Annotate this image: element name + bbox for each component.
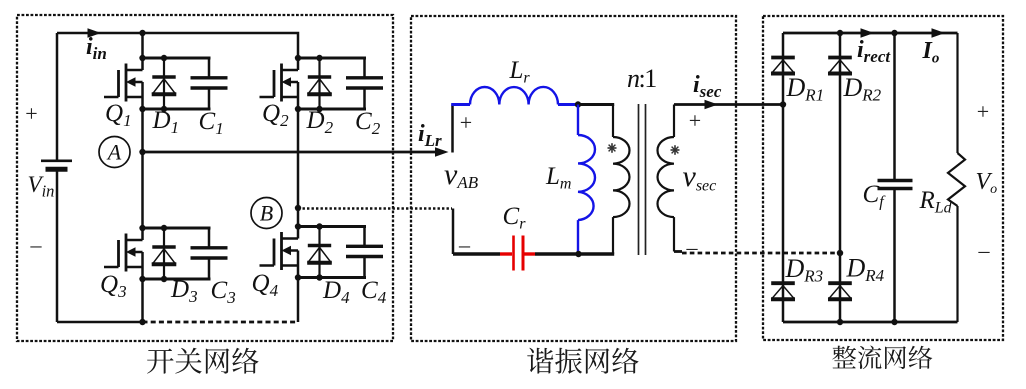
inductor L_m (magnetizing) — [578, 105, 595, 255]
wire leg2 middle through node B — [297, 109, 300, 227]
wire v_AB positive terminal vertical — [451, 105, 454, 153]
wire secondary top to rectifier — [674, 103, 783, 106]
svg-text:+: + — [689, 108, 701, 133]
diode DR1 — [771, 58, 795, 74]
wire leg2 bottom Q4 to return — [297, 278, 300, 323]
diode DR2 — [828, 58, 852, 74]
junction dots of Q2 cell — [295, 55, 323, 112]
section label rectifier network 整流网络 — [832, 345, 932, 369]
dashed box: rectifier network region — [763, 16, 1003, 340]
arrow of current i_rect — [861, 28, 875, 38]
dashed box: switch network region — [17, 15, 393, 341]
wire node B to resonant tank (dotted) — [298, 207, 452, 210]
wire bottom return dashed segment Q3 to Q4 — [143, 321, 299, 324]
transformer primary polarity asterisk — [608, 143, 617, 153]
junction dots of Q4 cell — [295, 223, 323, 280]
transistor Q3 (N-MOSFET) — [104, 228, 143, 279]
wire rectifier top rail — [783, 32, 958, 35]
junction dot L_m bottom — [575, 251, 581, 257]
capacitor C_r (resonant, red) — [500, 236, 535, 271]
transformer core lines — [639, 104, 646, 255]
wire rectifier bottom rail — [783, 321, 958, 324]
wire tank bottom right segment to primary — [535, 252, 614, 255]
node B circle annotation — [251, 198, 282, 229]
node A circle annotation — [99, 137, 130, 168]
resistor R_Ld (load) — [948, 33, 965, 322]
junction dots top rail — [837, 30, 898, 36]
svg-text:A: A — [106, 140, 122, 165]
arrow of current i_Lr — [435, 147, 449, 157]
wire source-node bottom bar of Q1 cell — [141, 108, 211, 111]
arrow of current i_sec — [705, 100, 719, 110]
arrow of current i_in — [88, 28, 102, 38]
svg-text:–: – — [30, 232, 43, 257]
capacitor C_f (output filter) — [878, 33, 913, 322]
wire bottom return solid segment — [57, 321, 143, 324]
wire top rail from battery to Q2 leg — [57, 33, 298, 58]
junction dots of Q1 cell — [139, 55, 167, 112]
wire drain-node top bar of Q2 cell — [297, 57, 367, 60]
diode D4 (anti-parallel) — [307, 227, 332, 278]
wire left rail upper (battery positive) — [56, 33, 59, 160]
wire bridge left leg (D_R1/D_R3) — [782, 33, 785, 322]
wire node to transformer primary top — [578, 103, 614, 106]
wire v_AB negative vertical from node B line — [452, 209, 455, 255]
wire secondary bottom stub — [674, 250, 682, 253]
transistor Q4 (N-MOSFET) — [260, 227, 299, 278]
transformer primary winding — [613, 105, 630, 255]
node B junction dot — [295, 205, 301, 211]
arrow of current I_o — [932, 28, 946, 38]
capacitor C2 (snubber) — [346, 58, 383, 109]
wire drain-node top bar of Q4 cell — [297, 225, 367, 228]
wire node A to resonant tank — [143, 151, 436, 154]
svg-text:–: – — [686, 235, 699, 260]
wire source-node bottom bar of Q4 cell — [297, 276, 367, 279]
wire drain-node top bar of Q3 cell — [141, 227, 211, 230]
transformer secondary winding — [658, 105, 674, 252]
svg-text:+: + — [977, 99, 989, 124]
junction dot L_m top — [575, 101, 581, 107]
diode D3 (anti-parallel) — [152, 228, 177, 279]
svg-text:+: + — [25, 101, 37, 126]
wire source-node bottom bar of Q2 cell — [297, 108, 367, 111]
svg-text:B: B — [260, 201, 273, 226]
svg-text:+: + — [460, 110, 472, 135]
wire blue lead into L_r — [451, 103, 470, 106]
diode DR4 — [828, 283, 852, 299]
junction dots of Q3 cell — [139, 225, 167, 282]
capacitor C4 (snubber) — [346, 227, 383, 278]
capacitor C1 (snubber) — [191, 58, 228, 109]
wire leg1 bottom Q3 to return — [141, 279, 144, 322]
wire bridge right leg (D_R2/D_R4) — [839, 33, 842, 322]
inductor L_r — [470, 87, 558, 105]
dashed box: resonant network region — [411, 16, 736, 341]
wire leg1 middle through node A — [141, 109, 144, 228]
wire left rail lower (battery negative) — [56, 172, 59, 323]
wire drain-node top bar of Q1 cell — [141, 57, 211, 60]
junction dot secondary top input — [780, 101, 786, 107]
transistor Q2 (N-MOSFET) — [260, 58, 299, 109]
transformer secondary polarity asterisk — [671, 145, 680, 155]
wire blue lead from L_r to node — [558, 103, 578, 106]
section label resonant network 谐振网络 — [527, 348, 638, 374]
wire tank bottom left segment — [453, 252, 500, 255]
diode DR3 — [771, 283, 795, 299]
junction dot secondary bottom input — [837, 250, 843, 256]
junction dot top rail / leg1 — [139, 30, 145, 36]
transistor Q1 (N-MOSFET) — [104, 58, 143, 109]
capacitor C3 (snubber) — [191, 228, 228, 279]
wire secondary bottom to rectifier (dashed) — [682, 252, 840, 255]
node A junction dot — [139, 149, 145, 155]
junction dots bottom rail — [837, 319, 898, 325]
section label switching network 开关网络 — [147, 348, 259, 374]
junction dot leg1 / bottom return — [139, 319, 145, 325]
svg-text:–: – — [978, 238, 991, 263]
diode D2 (anti-parallel) — [307, 58, 332, 109]
wire source-node bottom bar of Q3 cell — [141, 278, 211, 281]
wire leg1 drain drop to Q1 — [141, 33, 144, 58]
svg-text:n:1: n:1 — [627, 64, 656, 93]
diode D1 (anti-parallel) — [152, 58, 177, 109]
battery V_in — [41, 161, 72, 170]
